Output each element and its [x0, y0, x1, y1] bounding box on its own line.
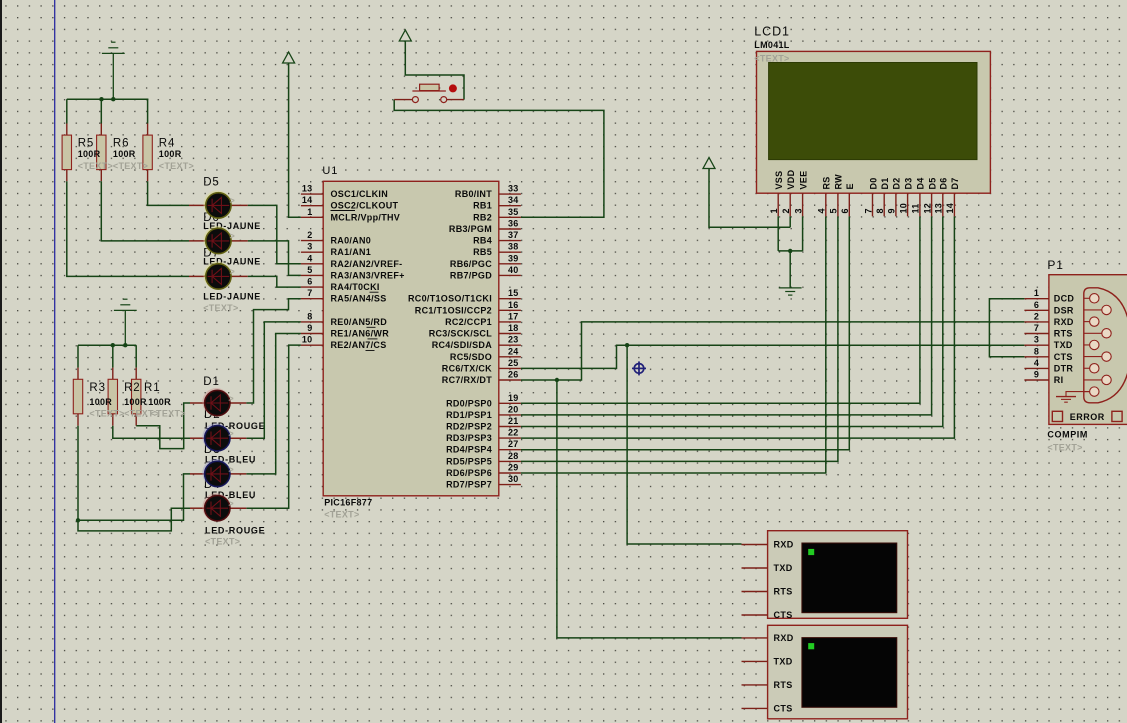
svg-text:100R: 100R [89, 397, 112, 407]
svg-text:28: 28 [508, 451, 519, 461]
resistor R5 top lead [66, 124, 68, 136]
P1 DB9 pin line 6 [1084, 356, 1107, 358]
svg-text:4: 4 [307, 253, 312, 263]
overbar MCLR [331, 210, 356, 212]
svg-text:33: 33 [508, 184, 519, 194]
pin 5 stub (left) [301, 274, 323, 276]
wire RC7 to terminal2 [557, 380, 742, 638]
svg-text:RE2/AN7/CS: RE2/AN7/CS [331, 340, 387, 350]
VT2 pin RTS stub [742, 684, 768, 686]
svg-text:18: 18 [508, 323, 519, 333]
resistor R5 [62, 135, 71, 170]
svg-text:R2: R2 [124, 382, 141, 394]
svg-text:VDD: VDD [786, 169, 796, 189]
pin 13 stub (left) [301, 193, 323, 195]
svg-text:8: 8 [307, 311, 312, 321]
svg-text:RD1/PSP1: RD1/PSP1 [446, 410, 492, 420]
power arrow (LCD VDD) [703, 158, 715, 169]
svg-text:RD2/PSP2: RD2/PSP2 [446, 422, 492, 432]
svg-text:38: 38 [508, 242, 519, 252]
svg-text:10: 10 [302, 335, 313, 345]
svg-text:RI: RI [1054, 375, 1064, 385]
svg-text:RD7/PSP7: RD7/PSP7 [446, 480, 492, 490]
wire D6 right [248, 241, 301, 276]
wire D1 right [246, 299, 301, 403]
svg-text:RC1/T1OSI/CCP2: RC1/T1OSI/CCP2 [415, 305, 492, 315]
wire RC6 to terminal1 [627, 345, 741, 544]
svg-text:LED-JAUNE: LED-JAUNE [203, 292, 261, 302]
LED D6 [203, 226, 231, 254]
junction node gnd2 rail [123, 343, 127, 347]
wire R6 top [100, 99, 102, 123]
LCD1 screen [769, 63, 977, 160]
pin 24 stub (right) [499, 356, 521, 358]
resistor R4 bottom lead [147, 170, 149, 182]
svg-text:>: > [228, 464, 234, 474]
P1 pin 8 stub [1024, 356, 1049, 358]
wire to D4 left [78, 508, 190, 531]
svg-text:<TEXT>: <TEXT> [159, 161, 194, 171]
pin 2 stub (left) [301, 240, 323, 242]
pin 22 stub (right) [499, 437, 521, 439]
P1 DB9 pin circle 5 [1090, 340, 1099, 349]
svg-text:24: 24 [508, 346, 519, 356]
P1 DB9 pin line 4 [1084, 332, 1107, 334]
svg-text:<TEXT>: <TEXT> [324, 510, 359, 520]
svg-text:20: 20 [508, 404, 519, 414]
pin 16 stub (right) [499, 309, 521, 311]
svg-text:LED-ROUGE: LED-ROUGE [205, 525, 265, 535]
svg-text:ERROR: ERROR [1070, 412, 1105, 422]
P1 DB9 pin line 2 [1084, 309, 1107, 311]
LED D2 lead right [230, 437, 246, 439]
svg-text:35: 35 [508, 207, 519, 217]
resistor R6 bottom lead [100, 170, 102, 182]
wire RD4-E [521, 216, 849, 449]
svg-text:RB3/PGM: RB3/PGM [449, 224, 492, 234]
pin 17 stub (right) [499, 321, 521, 323]
P1 DB9 pin circle 8 [1102, 375, 1111, 384]
svg-text:RW: RW [834, 174, 844, 190]
resistor R5 bottom lead [66, 170, 68, 182]
svg-text:D0: D0 [868, 177, 878, 189]
svg-text:<TEXT>: <TEXT> [89, 409, 124, 419]
svg-text:R6: R6 [113, 138, 130, 150]
svg-text:RD5/PSP5: RD5/PSP5 [446, 456, 492, 466]
svg-text:21: 21 [508, 416, 519, 426]
ground symbol (LCD) [779, 287, 802, 289]
P1 pin 7 stub [1024, 333, 1049, 335]
svg-text:RC6/TX/CK: RC6/TX/CK [442, 363, 492, 373]
P1 DB9 pin line 8 [1084, 379, 1107, 381]
svg-text:5: 5 [307, 265, 312, 275]
chip U1 body [323, 181, 499, 496]
svg-text:RXD: RXD [774, 540, 794, 550]
pin 6 stub (left) [301, 286, 323, 288]
resistor R6 [97, 135, 106, 170]
LED D1 lead left [190, 402, 204, 404]
LED D7 lead left [189, 275, 205, 277]
wire D3 right [246, 334, 301, 474]
P1 DB9 pin circle 4 [1102, 329, 1111, 338]
svg-text:RB6/PGC: RB6/PGC [450, 259, 492, 269]
wire RD2-D6 [521, 216, 943, 426]
wire R2 top [112, 345, 114, 367]
svg-text:RE1/AN6/WR: RE1/AN6/WR [331, 329, 390, 339]
pin 19 stub (right) [499, 402, 521, 404]
svg-text:37: 37 [508, 230, 519, 240]
svg-text:>: > [230, 196, 236, 206]
svg-text:TXD: TXD [774, 656, 793, 666]
ground symbol (top-left) [111, 41, 115, 43]
svg-text:22: 22 [508, 428, 519, 438]
LCD pin 11 stub [919, 193, 921, 216]
wire R4 top [147, 99, 149, 123]
svg-text:VEE: VEE [798, 171, 808, 190]
wire R3 to D3 [78, 474, 190, 520]
pin 29 stub (right) [499, 472, 521, 474]
P1 DB9 pin circle 2 [1102, 305, 1111, 314]
svg-text:RC7/RX/DT: RC7/RX/DT [442, 375, 492, 385]
svg-text:9: 9 [1034, 370, 1039, 380]
svg-text:OSC2/CLKOUT: OSC2/CLKOUT [331, 201, 399, 211]
wire R3 down [77, 426, 79, 521]
junction node R2 rail [111, 343, 115, 347]
pin 14 stub (left) [301, 205, 323, 207]
LCD pin 14 stub [953, 193, 955, 216]
svg-text:100R: 100R [124, 397, 147, 407]
wire R6 to D6 [101, 181, 189, 241]
svg-text:RA5/AN4/SS: RA5/AN4/SS [331, 294, 387, 304]
svg-text:25: 25 [508, 358, 519, 368]
terminal VT1 body [768, 531, 908, 619]
svg-text:RA4/T0CKI: RA4/T0CKI [331, 282, 380, 292]
svg-text:36: 36 [508, 219, 519, 229]
junction node R3 bottom [76, 518, 80, 522]
wire MCLR [289, 63, 301, 217]
svg-text:100R: 100R [159, 149, 182, 159]
pin 34 stub (right) [499, 205, 521, 207]
LED D2 [202, 423, 230, 451]
pin 3 stub (left) [301, 251, 323, 253]
overbar WR [368, 338, 378, 340]
P1 DB9 pin circle 7 [1090, 364, 1099, 373]
svg-text:D5: D5 [203, 177, 220, 189]
svg-text:39: 39 [508, 253, 519, 263]
svg-text:>: > [228, 429, 234, 439]
LED D4 [202, 493, 230, 521]
wire D4 right [246, 345, 301, 508]
svg-text:PIC16F877: PIC16F877 [324, 498, 372, 508]
junction RC6 branch [625, 343, 629, 347]
VT2 pin CTS stub [742, 707, 768, 709]
wire R1 top [135, 345, 137, 367]
LED D6 lead right [231, 240, 247, 242]
svg-text:RD4/PSP4: RD4/PSP4 [446, 445, 492, 455]
wire RD5-RW [521, 216, 838, 461]
LED D3 lead right [230, 473, 246, 475]
svg-text:9: 9 [307, 323, 312, 333]
pin 18 stub (right) [499, 333, 521, 335]
pin 26 stub (right) [499, 379, 521, 381]
svg-text:TXD: TXD [774, 563, 793, 573]
svg-text:>: > [228, 394, 234, 404]
button terminal left [412, 97, 418, 103]
P1 pin 6 stub [1024, 309, 1049, 311]
overbar RD [367, 326, 376, 328]
svg-text:40: 40 [508, 265, 519, 275]
svg-text:3: 3 [1034, 335, 1039, 345]
svg-text:RB2: RB2 [473, 212, 492, 222]
svg-text:100R: 100R [78, 149, 101, 159]
svg-text:6: 6 [1034, 300, 1039, 310]
svg-text:E: E [845, 183, 855, 189]
svg-text:RC5/SDO: RC5/SDO [450, 352, 492, 362]
wire D5 right [248, 205, 301, 263]
LED D3 [202, 459, 230, 487]
svg-text:<TEXT>: <TEXT> [754, 54, 789, 64]
button lead left [394, 99, 412, 101]
wire R4 to D5 [148, 181, 189, 205]
wire RD1-D5 [521, 216, 932, 415]
svg-text:DSR: DSR [1054, 305, 1074, 315]
svg-text:14: 14 [302, 195, 313, 205]
svg-text:D5: D5 [927, 177, 937, 189]
VT2 pin TXD stub [742, 660, 768, 662]
ground symbol (mid-left) [123, 298, 127, 300]
svg-text:<TEXT>: <TEXT> [1047, 442, 1082, 452]
svg-text:DTR: DTR [1054, 363, 1074, 373]
junction node gnd rail [111, 97, 115, 101]
pin 20 stub (right) [499, 414, 521, 416]
svg-text:<TEXT>: <TEXT> [151, 409, 186, 419]
P1 DB9 pin line 5 [1084, 344, 1095, 346]
pin 33 stub (right) [499, 193, 521, 195]
svg-text:<TEXT>: <TEXT> [203, 303, 238, 313]
svg-text:CTS: CTS [774, 703, 793, 713]
resistor R3 top lead [77, 368, 79, 380]
pin 4 stub (left) [301, 263, 323, 265]
terminal VT2 body [768, 625, 908, 719]
svg-text:26: 26 [508, 370, 519, 380]
P1 error checkbox right [1112, 411, 1122, 421]
svg-text:29: 29 [508, 463, 519, 473]
button actuator dot [449, 84, 457, 92]
button lead right [447, 99, 464, 101]
resistor R6 top lead [100, 124, 102, 136]
wire R1 to D1 [136, 403, 190, 449]
svg-text:D6: D6 [939, 177, 949, 189]
svg-text:RXD: RXD [774, 633, 794, 643]
wire RD6-RS [521, 216, 826, 473]
resistor R1 top lead [135, 368, 137, 380]
resistor R2 top lead [112, 368, 114, 380]
pin 25 stub (right) [499, 367, 521, 369]
wire VDD down [789, 216, 791, 227]
P1 pin 3 stub [1024, 344, 1049, 346]
svg-text:<TEXT>: <TEXT> [78, 161, 113, 171]
pin 10 stub (left) [301, 344, 323, 346]
svg-text:RC3/SCK/SCL: RC3/SCK/SCL [429, 329, 493, 339]
resistor R1 [132, 379, 141, 414]
svg-text:R5: R5 [78, 138, 95, 150]
P1 pin 9 stub [1024, 379, 1049, 381]
resistor R3 [73, 379, 82, 414]
svg-text:30: 30 [508, 474, 519, 484]
svg-text:D3: D3 [903, 177, 913, 189]
pin 38 stub (right) [499, 251, 521, 253]
wire R5 to D7 [67, 181, 189, 276]
wire RD0-D4 [521, 216, 920, 403]
overbar SS [370, 291, 379, 293]
power arrow (MCLR) [283, 52, 295, 63]
LCD pin 2 stub [789, 193, 791, 216]
VT1 pin TXD stub [742, 567, 768, 569]
svg-text:LM041L: LM041L [754, 40, 790, 50]
pin 39 stub (right) [499, 263, 521, 265]
pin 36 stub (right) [499, 228, 521, 230]
junction RC7 branch [555, 378, 559, 382]
svg-text:4: 4 [1034, 358, 1039, 368]
LCD pin 1 stub [777, 193, 779, 216]
resistor R2 bottom lead [112, 414, 114, 426]
pin 8 stub (left) [301, 321, 323, 323]
svg-text:DCD: DCD [1054, 294, 1075, 304]
P1 body [1049, 275, 1127, 425]
svg-text:34: 34 [508, 195, 519, 205]
pin 40 stub (right) [499, 274, 521, 276]
LED D6 lead left [189, 240, 205, 242]
LED D1 lead right [230, 402, 246, 404]
wire VSS-VEE join [778, 250, 802, 252]
LCD pin 12 stub [931, 193, 933, 216]
LED D7 [203, 261, 231, 289]
svg-text:TXD: TXD [1054, 340, 1073, 350]
overbar CS [366, 350, 375, 352]
wire gnd stem (LCD) [789, 251, 791, 288]
P1 error checkbox left [1052, 411, 1062, 421]
svg-text:LCD1: LCD1 [754, 25, 790, 39]
svg-text:RTS: RTS [1054, 329, 1073, 339]
VT1 pin RTS stub [742, 591, 768, 593]
svg-text:<TEXT>: <TEXT> [205, 537, 240, 547]
LED D2 lead left [190, 437, 204, 439]
wire button left net [394, 100, 604, 218]
svg-text:100R: 100R [148, 397, 171, 407]
svg-text:3: 3 [307, 242, 312, 252]
P1 DB9 pin line 7 [1084, 367, 1095, 369]
P1 DB9 pin circle 6 [1102, 352, 1111, 361]
svg-text:RTS: RTS [774, 587, 793, 597]
P1 pin 2 stub [1024, 321, 1049, 323]
resistor R1 bottom lead [135, 414, 137, 426]
svg-text:COMPIM: COMPIM [1047, 429, 1088, 439]
svg-text:RA1/AN1: RA1/AN1 [331, 247, 372, 257]
svg-text:RC2/CCP1: RC2/CCP1 [445, 317, 492, 327]
svg-text:RB5: RB5 [473, 247, 492, 257]
svg-text:7: 7 [307, 288, 312, 298]
LCD pin 6 stub [848, 193, 850, 216]
button bar [412, 90, 446, 92]
svg-text:>: > [230, 231, 236, 241]
svg-text:16: 16 [508, 300, 519, 310]
svg-text:RA2/AN2/VREF-: RA2/AN2/VREF- [331, 259, 403, 269]
wire RC7 to P1 RXD [521, 322, 1025, 380]
svg-text:D1: D1 [880, 177, 890, 189]
button cap [420, 84, 440, 90]
svg-text:RA0/AN0: RA0/AN0 [331, 236, 372, 246]
wire button right net [405, 41, 464, 100]
pin 9 stub (left) [301, 333, 323, 335]
LED D4 lead right [230, 507, 246, 509]
P1 DB9 pin circle 9 [1090, 387, 1099, 396]
svg-text:>: > [230, 267, 236, 277]
LED D4 lead left [190, 507, 204, 509]
wire R5 top [66, 99, 68, 123]
svg-text:2: 2 [307, 230, 312, 240]
pin 27 stub (right) [499, 449, 521, 451]
LCD pin 7 stub [872, 193, 874, 216]
wire D2 right [246, 322, 301, 438]
pin 28 stub (right) [499, 460, 521, 462]
svg-text:D7: D7 [950, 177, 960, 189]
LCD pin 3 stub [802, 193, 804, 216]
svg-text:P1: P1 [1047, 258, 1063, 272]
LCD pin 13 stub [942, 193, 944, 216]
svg-text:D4: D4 [916, 177, 926, 189]
LCD1 body [757, 51, 991, 193]
LED D5 [203, 190, 231, 218]
wire DCD-CTS loop [989, 299, 1024, 357]
svg-text:100R: 100R [113, 149, 136, 159]
LED D1 [202, 388, 230, 416]
LCD pin 10 stub [907, 193, 909, 216]
P1 ground symbol [1056, 396, 1076, 398]
LCD pin 4 stub [825, 193, 827, 216]
svg-text:13: 13 [302, 184, 313, 194]
P1 DB9 pin line 9 [1084, 391, 1095, 393]
svg-text:RB0/INT: RB0/INT [455, 189, 492, 199]
wire RC6 to P1 TXD [521, 345, 1025, 368]
svg-text:VSS: VSS [774, 171, 784, 190]
pin 30 stub (right) [499, 484, 521, 486]
pin 1 stub (left) [301, 216, 323, 218]
svg-text:19: 19 [508, 393, 519, 403]
svg-text:2: 2 [1034, 311, 1039, 321]
VT1 pin RXD stub [742, 544, 768, 546]
wire RD3-D7 [521, 216, 955, 438]
svg-text:8: 8 [1034, 346, 1039, 356]
svg-text:RD6/PSP6: RD6/PSP6 [446, 468, 492, 478]
svg-text:RC0/T1OSO/T1CKI: RC0/T1OSO/T1CKI [408, 294, 492, 304]
svg-text:1: 1 [307, 207, 312, 217]
pin 7 stub (left) [301, 298, 323, 300]
LED D3 lead left [190, 473, 204, 475]
svg-text:RA3/AN3/VREF+: RA3/AN3/VREF+ [331, 270, 405, 280]
VT2 pin RXD stub [742, 637, 768, 639]
P1 DB9 ground link [1066, 392, 1090, 397]
LCD pin 5 stub [837, 193, 839, 216]
pin 23 stub (right) [499, 344, 521, 346]
LED D5 lead right [231, 204, 247, 206]
svg-text:7: 7 [1034, 323, 1039, 333]
origin marker [632, 361, 646, 375]
P1 DB9 pin circle 1 [1090, 294, 1099, 303]
junction VSS/VEE [788, 249, 792, 253]
svg-text:RS: RS [822, 176, 832, 189]
P1 DB9 shell [1084, 288, 1127, 403]
pin 15 stub (right) [499, 298, 521, 300]
